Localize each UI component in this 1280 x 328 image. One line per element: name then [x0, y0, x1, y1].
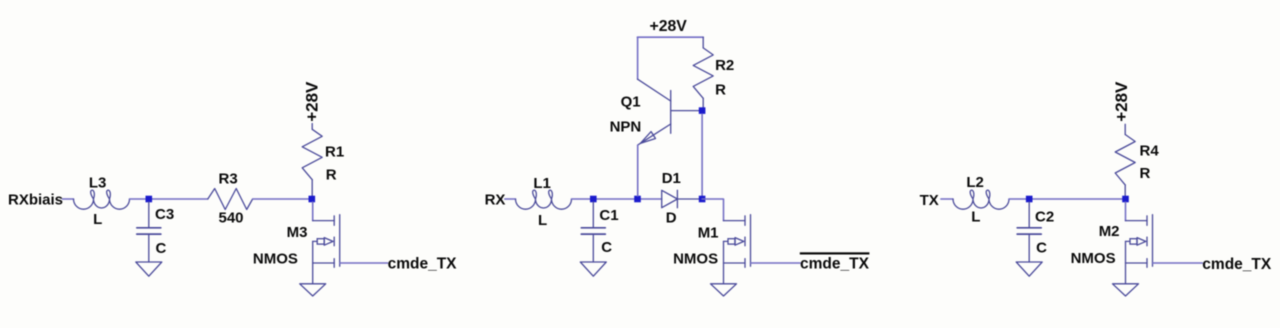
resistor R1	[302, 124, 344, 197]
svg-text:L1: L1	[533, 175, 551, 192]
svg-text:M3: M3	[287, 224, 308, 241]
wire	[253, 198, 312, 200]
resistor R2	[693, 37, 734, 107]
svg-text:C2: C2	[1035, 208, 1054, 225]
svg-text:M2: M2	[1099, 223, 1120, 240]
svg-text:D1: D1	[662, 170, 681, 187]
svg-text:NMOS: NMOS	[1071, 250, 1116, 267]
svg-text:R4: R4	[1140, 142, 1160, 159]
wire	[1125, 202, 1127, 221]
svg-text:RXbiais: RXbiais	[8, 191, 63, 208]
svg-text:R1: R1	[325, 143, 344, 160]
svg-text:C3: C3	[155, 206, 174, 223]
junction	[590, 196, 597, 203]
inductor L3	[74, 175, 130, 228]
svg-text:cmde_TX: cmde_TX	[800, 256, 870, 273]
wire	[701, 114, 703, 196]
junction	[699, 107, 706, 114]
svg-text:C: C	[601, 239, 612, 256]
svg-text:+28V: +28V	[1112, 81, 1131, 122]
svg-text:L: L	[93, 211, 102, 228]
svg-text:D: D	[666, 209, 677, 226]
svg-text:540: 540	[219, 210, 244, 227]
svg-text:cmde_TX: cmde_TX	[388, 256, 458, 273]
wire	[130, 198, 208, 200]
capacitor C2	[1017, 202, 1041, 262]
svg-text:R: R	[326, 166, 337, 183]
svg-text:C: C	[1036, 240, 1047, 257]
svg-text:cmde_TX: cmde_TX	[1202, 256, 1272, 273]
n-mosfet M2	[1126, 215, 1153, 284]
svg-text:R: R	[715, 82, 726, 99]
wire	[941, 198, 953, 200]
svg-text:C: C	[156, 240, 167, 257]
svg-text:NMOS: NMOS	[253, 251, 298, 268]
svg-text:C1: C1	[599, 207, 618, 224]
svg-text:L3: L3	[89, 175, 107, 192]
junction	[1026, 196, 1033, 203]
ground	[136, 262, 162, 276]
wire	[340, 262, 388, 264]
svg-text:L: L	[971, 209, 980, 226]
wire	[312, 202, 314, 221]
ground	[711, 284, 737, 296]
capacitor C3	[137, 202, 161, 262]
n-mosfet M1	[724, 215, 751, 284]
svg-text:TX: TX	[920, 192, 939, 209]
svg-text:M1: M1	[698, 225, 719, 242]
node cmde_TX (inverted)	[800, 252, 870, 272]
resistor R4	[1115, 124, 1159, 196]
wire	[1009, 198, 1126, 200]
junction	[309, 196, 316, 203]
npn transistor Q1	[610, 37, 703, 196]
svg-text:+28V: +28V	[303, 81, 322, 122]
junction	[634, 196, 641, 203]
junction	[146, 196, 153, 203]
svg-text:Q1: Q1	[621, 93, 641, 110]
svg-text:NPN: NPN	[610, 118, 642, 135]
junction	[699, 196, 706, 203]
ground	[580, 262, 606, 276]
ground	[300, 284, 326, 296]
inductor L1	[516, 175, 572, 229]
n-mosfet M3	[313, 215, 340, 284]
inductor L2	[953, 174, 1009, 225]
wire	[637, 36, 703, 38]
wire	[702, 199, 723, 221]
svg-text:R2: R2	[715, 57, 734, 74]
svg-text:+28V: +28V	[650, 18, 688, 35]
wire	[751, 262, 801, 264]
junction	[1122, 196, 1129, 203]
ground	[1113, 284, 1139, 296]
wire	[572, 198, 662, 200]
svg-text:L2: L2	[966, 174, 984, 191]
wire	[63, 198, 74, 200]
wire	[505, 198, 516, 200]
svg-text:RX: RX	[485, 191, 506, 208]
capacitor C1	[581, 202, 605, 262]
ground	[1016, 262, 1042, 276]
svg-text:R3: R3	[219, 170, 238, 187]
diode D1	[662, 170, 702, 227]
resistor R3	[208, 170, 253, 226]
svg-text:L: L	[538, 212, 547, 229]
wire	[1153, 262, 1203, 264]
svg-text:NMOS: NMOS	[673, 250, 718, 267]
svg-text:R: R	[1140, 165, 1151, 182]
